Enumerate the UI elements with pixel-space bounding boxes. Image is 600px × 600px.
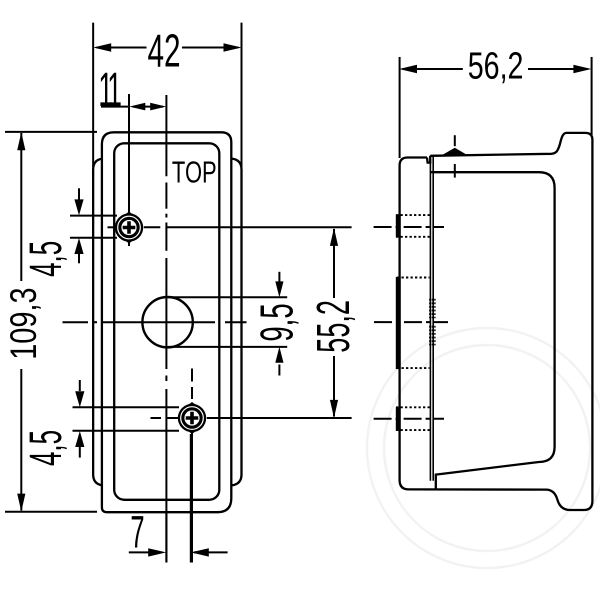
svg-text:9,5: 9,5 bbox=[252, 303, 303, 341]
svg-text:4,5: 4,5 bbox=[19, 241, 71, 277]
svg-text:109,3: 109,3 bbox=[3, 287, 44, 359]
svg-text:55,2: 55,2 bbox=[308, 300, 359, 353]
svg-text:7: 7 bbox=[130, 507, 144, 558]
svg-text:4,5: 4,5 bbox=[19, 430, 71, 466]
svg-text:11: 11 bbox=[98, 64, 120, 117]
svg-text:56,2: 56,2 bbox=[468, 45, 524, 88]
svg-text:TOP: TOP bbox=[172, 155, 217, 189]
svg-text:42: 42 bbox=[147, 26, 180, 77]
